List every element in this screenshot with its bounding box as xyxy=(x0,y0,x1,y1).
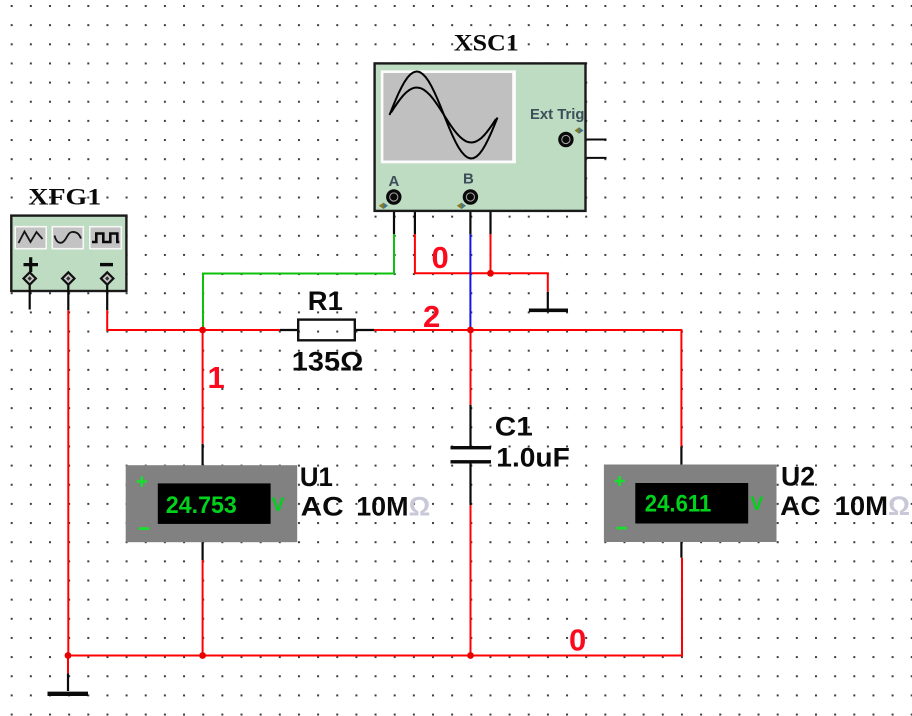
wire black lead U1 bottom xyxy=(202,542,204,561)
wire node1 junction to R1 left xyxy=(203,329,280,331)
ground near scope xyxy=(529,292,568,311)
svg-text:XFG1: XFG1 xyxy=(28,185,101,210)
function generator XFG1 box xyxy=(11,216,126,311)
XFG1 sine button xyxy=(15,227,46,249)
svg-text:2: 2 xyxy=(423,299,440,334)
terminal A xyxy=(386,189,401,204)
wire black lead C1 bottom xyxy=(469,464,471,506)
junction U1 bottom rail xyxy=(199,652,206,659)
svg-text:0: 0 xyxy=(569,623,586,658)
capacitor C1 xyxy=(451,446,492,464)
terminal B xyxy=(463,189,478,204)
wire ext trig stub upper xyxy=(573,139,606,141)
svg-text:AC: AC xyxy=(301,492,344,522)
svg-text:24.611: 24.611 xyxy=(645,490,712,517)
junction scope ground xyxy=(487,270,494,277)
XFG1 minus sign xyxy=(100,263,113,266)
wire node2 to U2 top xyxy=(471,330,682,446)
XFG1 terminal - xyxy=(106,284,108,310)
wire black lead R1 right xyxy=(355,329,374,331)
XFG1 triangle button xyxy=(52,227,83,249)
wire node2 down to C1 top xyxy=(470,330,472,405)
svg-text:24.753: 24.753 xyxy=(166,492,237,519)
svg-text:10MΩ: 10MΩ xyxy=(835,491,911,521)
scope trace channel B xyxy=(391,88,496,143)
arrow A xyxy=(379,203,384,209)
svg-text:0: 0 xyxy=(432,240,449,275)
wire R1 right to node 2 xyxy=(374,329,471,331)
svg-text:U2: U2 xyxy=(781,462,815,492)
wire black lead U1 top xyxy=(202,444,204,466)
wire scope A right branch to ground xyxy=(415,234,548,292)
junction node 2 xyxy=(467,327,474,334)
voltmeter U2 xyxy=(604,465,777,543)
ground bottom left xyxy=(48,656,89,694)
svg-text:U1: U1 xyxy=(300,462,333,492)
wire bottom node 0 rail xyxy=(68,558,682,656)
wire black lead scope A right xyxy=(401,199,415,234)
svg-text:A: A xyxy=(389,173,400,190)
junction C1 bottom rail xyxy=(467,652,474,659)
XFG1 square button xyxy=(90,227,122,249)
arrow ext trig xyxy=(575,127,580,133)
wire XFG1 minus output to node 1 junction xyxy=(107,310,202,330)
wire blue scope B to node 2 xyxy=(469,234,471,329)
wire scope B right branch to ground junction xyxy=(490,234,492,273)
wire node1 down to U1 top xyxy=(202,330,204,444)
svg-text:1.0uF: 1.0uF xyxy=(496,443,570,473)
svg-text:1: 1 xyxy=(208,360,225,395)
wire black lead scope A down xyxy=(393,204,395,235)
wire C1 bottom to node 0 xyxy=(470,505,472,656)
scope trace channel A xyxy=(390,72,498,159)
wire black lead scope B down xyxy=(469,204,471,235)
svg-text:V: V xyxy=(751,494,764,515)
wire black lead R1 left xyxy=(280,329,298,331)
svg-text:V: V xyxy=(272,495,285,516)
wire black lead C1 top xyxy=(469,405,471,446)
wire green scope A to node 1 xyxy=(203,234,394,330)
svg-text:10MΩ: 10MΩ xyxy=(356,492,430,522)
voltmeter U1 xyxy=(126,465,298,542)
wire ext trig stub lower xyxy=(566,147,607,158)
svg-text:135Ω: 135Ω xyxy=(292,347,364,377)
terminal Ext Trig xyxy=(558,132,573,147)
XFG1 plus sign xyxy=(24,257,39,272)
svg-text:AC: AC xyxy=(780,491,821,521)
svg-text:C1: C1 xyxy=(495,412,533,442)
wire U1 bottom to node 0 xyxy=(202,560,204,656)
svg-text:R1: R1 xyxy=(308,286,343,316)
wire black lead scope B right xyxy=(477,199,491,234)
wire COM of XFG1 down left side xyxy=(67,310,69,655)
junction node 1 xyxy=(199,327,206,334)
wire black lead U2 top xyxy=(680,446,682,465)
svg-text:Ext Trig: Ext Trig xyxy=(530,106,585,123)
resistor R1 xyxy=(298,320,355,341)
junction bottom left xyxy=(65,652,72,659)
svg-text:B: B xyxy=(463,171,474,188)
oscilloscope XSC1 xyxy=(375,63,586,211)
svg-text:XSC1: XSC1 xyxy=(454,31,519,56)
XFG1 terminal + xyxy=(29,284,31,310)
XFG1 terminal COM xyxy=(67,284,69,310)
arrow B xyxy=(457,203,462,209)
wire black lead U2 bottom xyxy=(680,542,682,558)
